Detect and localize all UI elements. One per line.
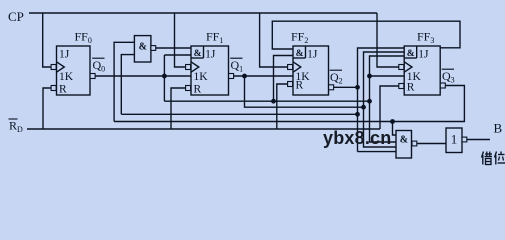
wire CP drop to FF1 clock: [175, 13, 186, 67]
wire Q0 to FF3 1K: [370, 75, 405, 77]
wire Q2 bus line from G1: [121, 113, 357, 115]
wire Q1 output to FF2 1K: [234, 75, 293, 77]
svg-text:R: R: [59, 84, 67, 96]
AND input block of FF2: [305, 46, 307, 58]
wire Q3 output loop to bus: [114, 86, 464, 122]
wire RD rail: [27, 128, 380, 130]
clock input (negative edge) of FF2: [293, 62, 301, 72]
wire Q2 output to junction: [334, 86, 358, 88]
reset input bubble of FF0: [51, 86, 56, 91]
wire RD rise to FF3 R: [380, 86, 399, 129]
NAND gate G1 output bubble: [151, 46, 156, 51]
wire Q0 vertical branch: [163, 55, 165, 101]
wire CP drop to FF2 clock: [260, 13, 288, 67]
svg-text:1: 1: [451, 132, 458, 147]
svg-text:R: R: [296, 80, 304, 92]
wire CP drop to FF0 clock: [43, 13, 52, 67]
flip-flop FF3 body: [404, 46, 440, 95]
svg-text:R: R: [407, 82, 415, 94]
reset input bubble of FF3: [399, 84, 404, 89]
svg-text:1K: 1K: [194, 71, 209, 83]
AND input block of FF3: [416, 46, 418, 58]
svg-text:&: &: [139, 41, 147, 52]
wire borrow NAND to inverter: [417, 143, 446, 145]
wire Q0 branch to FF1 J-AND: [164, 54, 191, 56]
wire RD rise to FF2 R: [277, 84, 288, 129]
reset input bubble of FF1: [186, 86, 191, 91]
wire Q0 rise to FF3 J-AND: [370, 56, 405, 101]
inverted output bubble of FF2: [329, 85, 334, 90]
svg-text:&: &: [407, 49, 415, 59]
NAND gate G1 body: [134, 36, 151, 62]
wire Q0 bus line: [164, 100, 369, 102]
svg-text:ybx8.cn: ybx8.cn: [323, 128, 391, 148]
wire CP top rail: [29, 12, 377, 14]
label JieWei (borrow): [482, 152, 484, 158]
svg-text:1K: 1K: [59, 71, 74, 83]
svg-text:1J: 1J: [205, 49, 216, 61]
wire Q2 to borrow gate: [358, 151, 397, 153]
svg-text:&: &: [400, 135, 408, 146]
junction Q2 at FF3 branch: [355, 85, 360, 90]
wire Q1 drop to borrow gate: [364, 107, 397, 147]
junction Q0 bus to FF2 branch: [271, 99, 276, 104]
wire Q3 true-output feedback loop to FF2 J-AND: [272, 21, 460, 49]
svg-text:1J: 1J: [418, 49, 429, 61]
wire Q0 rise to FF2 J-AND: [274, 56, 294, 102]
wire inverter output B: [467, 139, 490, 141]
clock input (negative edge) of FF3: [404, 62, 412, 72]
AND input block of FF1: [203, 46, 205, 58]
wire Q0 drop to borrow gate: [370, 101, 397, 142]
inverted output bubble of FF0: [90, 74, 95, 79]
wire Q2 drop on bus: [357, 87, 359, 151]
svg-text:R: R: [194, 84, 202, 96]
svg-text:1J: 1J: [307, 49, 318, 61]
wire RD rise to FF1 R: [171, 88, 186, 129]
wire RD rise to FF0 R: [43, 88, 51, 129]
clock input (negative edge) of FF1: [191, 62, 199, 72]
svg-text:B: B: [494, 121, 503, 136]
inverter body: [446, 128, 462, 153]
wire CP drop to FF3 clock: [377, 13, 399, 67]
flip-flop FF1 body: [191, 46, 229, 95]
wire Q0 output to FF1 1K: [95, 75, 191, 77]
flip-flop FF2 body: [293, 46, 329, 95]
wire Q3 drop to borrow gate: [393, 122, 397, 136]
wire Q1 bus line: [245, 76, 364, 107]
junction Q0 at FF1 K wire: [162, 74, 167, 79]
inverted output bubble of FF3: [440, 83, 445, 88]
reset input bubble of FF2: [288, 82, 293, 87]
clock input (negative edge) of FF0: [57, 62, 65, 72]
inverted output bubble of FF1: [229, 74, 234, 79]
junction Q0 bus at FF3 branch: [367, 99, 372, 104]
junction Q0 at FF3 K wire: [367, 74, 372, 79]
svg-text:CP: CP: [8, 9, 24, 24]
svg-text:&: &: [296, 49, 304, 59]
wire G1 lower input from Q2-bus: [121, 55, 134, 115]
inverter output bubble: [462, 137, 467, 142]
wire Q1 rise to FF3 J-AND: [364, 52, 405, 107]
flip-flop FF0 body: [57, 46, 91, 95]
wire G1 upper input from Q3-bus: [114, 42, 134, 121]
borrow NAND output bubble: [412, 141, 417, 146]
wire G1 output to FF1 J-AND: [156, 47, 191, 49]
svg-text:1J: 1J: [59, 49, 70, 61]
wire Q2 rise to FF3 J-AND: [358, 48, 405, 87]
borrow NAND gate body: [396, 131, 412, 159]
svg-text:&: &: [194, 49, 202, 59]
junction Q2 bus end: [355, 112, 360, 117]
junction Q1 bus at FF3 branch: [361, 105, 366, 110]
junction Q3 bus at borrow branch: [390, 119, 395, 124]
junction Q1 branch: [242, 74, 247, 79]
